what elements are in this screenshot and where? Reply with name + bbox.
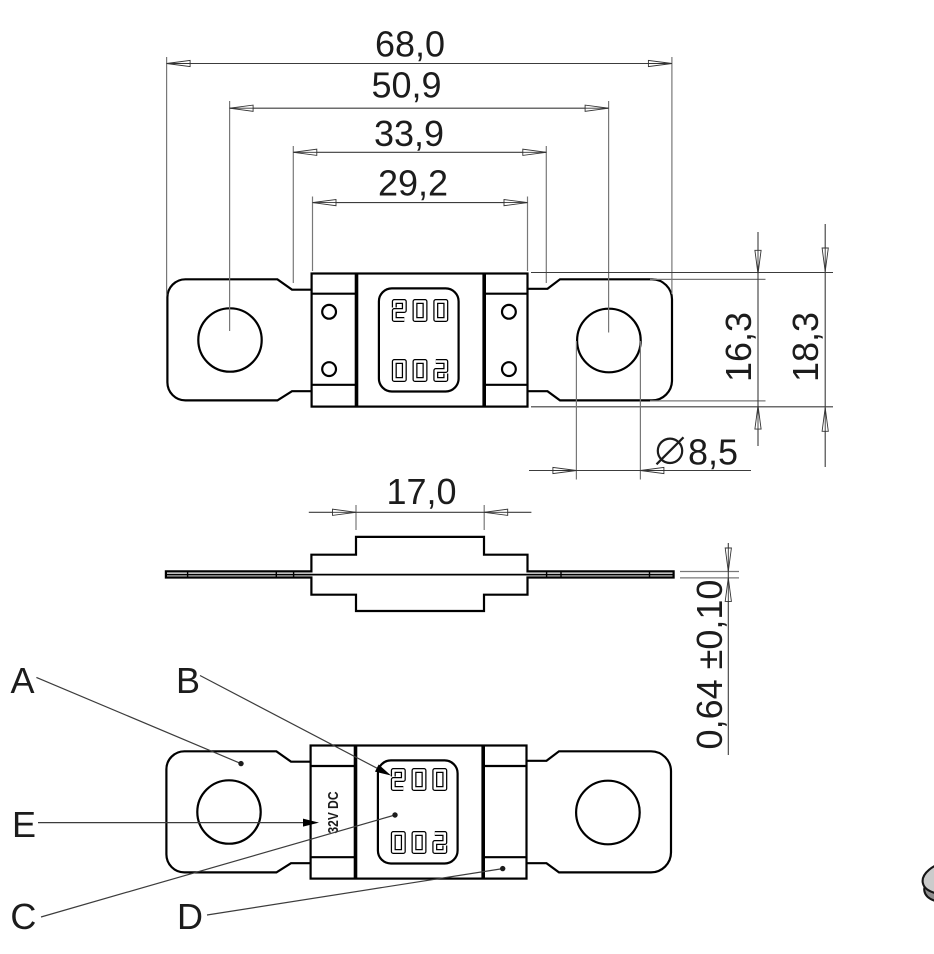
fuse top view: right end-cap divider [482, 274, 486, 407]
svg-text:68,0: 68,0 [375, 24, 445, 65]
fuse top view: left terminal hole [198, 308, 261, 371]
svg-text:32V DC: 32V DC [325, 791, 342, 833]
callout label D [177, 896, 203, 937]
svg-text:B: B [176, 660, 200, 701]
leader C [41, 812, 398, 917]
svg-text:A: A [10, 660, 34, 701]
leader E [38, 819, 319, 827]
leader D [207, 866, 505, 915]
fuse top view: body outline [312, 274, 528, 407]
svg-text:18,3: 18,3 [785, 312, 826, 382]
svg-text:33,9: 33,9 [374, 113, 444, 154]
extension lines right of top view [531, 273, 833, 407]
dimension 18,3 [785, 224, 828, 467]
fuse side view outline [166, 537, 674, 611]
fuse top view: rivets [322, 305, 516, 376]
svg-text:50,9: 50,9 [371, 65, 441, 106]
fuse top view: right ring terminal [528, 279, 673, 400]
dimension 16,3 [718, 232, 761, 446]
fuse top view: right terminal hole [577, 309, 641, 373]
fuse top view: right cap edge lines [484, 294, 527, 385]
dimension 68,0 [167, 24, 672, 296]
callout label B [176, 660, 200, 701]
fuse top view: left cap edge lines [312, 294, 357, 385]
fuse bottom view: right terminal hole [576, 781, 640, 845]
dimension 29,2 [313, 163, 528, 272]
fuse bottom view: marking 200 [393, 771, 445, 789]
fuse top view: left ring terminal [167, 279, 311, 400]
svg-text:8,5: 8,5 [688, 432, 738, 473]
dimension 33,9 [293, 113, 546, 283]
fuse bottom view: left cap edge lines [311, 766, 356, 857]
fuse bottom view: 32V DC marking [325, 791, 342, 833]
3d coin thumbnail: side [921, 863, 934, 907]
svg-text:C: C [10, 896, 36, 937]
fuse top view: marking 200 [394, 302, 446, 320]
callout label A [10, 660, 34, 701]
svg-text:D: D [177, 896, 203, 937]
svg-text:0,64 ±0,10: 0,64 ±0,10 [689, 580, 730, 750]
fuse side view blade tick marks [188, 571, 650, 577]
3d coin thumbnail: top face [920, 855, 934, 899]
fuse top view: left end-cap divider [355, 274, 359, 407]
svg-text:16,3: 16,3 [718, 312, 759, 382]
dimension 17,0 [309, 471, 532, 530]
fuse bottom view: rating label plate [378, 760, 458, 863]
fuse top view: marking 002 [394, 362, 446, 380]
fuse bottom view: body outline [311, 746, 527, 879]
fuse top view: rating label plate [379, 288, 459, 391]
svg-text:29,2: 29,2 [378, 163, 448, 204]
svg-text:17,0: 17,0 [386, 471, 456, 512]
fuse bottom view: marking 002 [393, 834, 445, 852]
fuse side view center line [166, 574, 674, 576]
leader A [36, 677, 243, 766]
callout label E [12, 804, 36, 845]
svg-text:E: E [12, 804, 36, 845]
fuse bottom view: left end-cap divider [354, 746, 358, 879]
dimension 0,64 plus-minus 0,10 [680, 543, 739, 755]
fuse bottom view: right ring terminal [527, 751, 672, 872]
fuse bottom view: left ring terminal [166, 751, 310, 872]
fuse bottom view: left terminal hole [197, 780, 260, 843]
dimension diameter 8,5 [529, 341, 751, 480]
leader B [200, 676, 393, 780]
dimension 50,9 [230, 65, 609, 333]
fuse bottom view: right cap edge lines [483, 766, 526, 857]
fuse bottom view: right end-cap divider [481, 746, 485, 879]
callout label C [10, 896, 36, 937]
